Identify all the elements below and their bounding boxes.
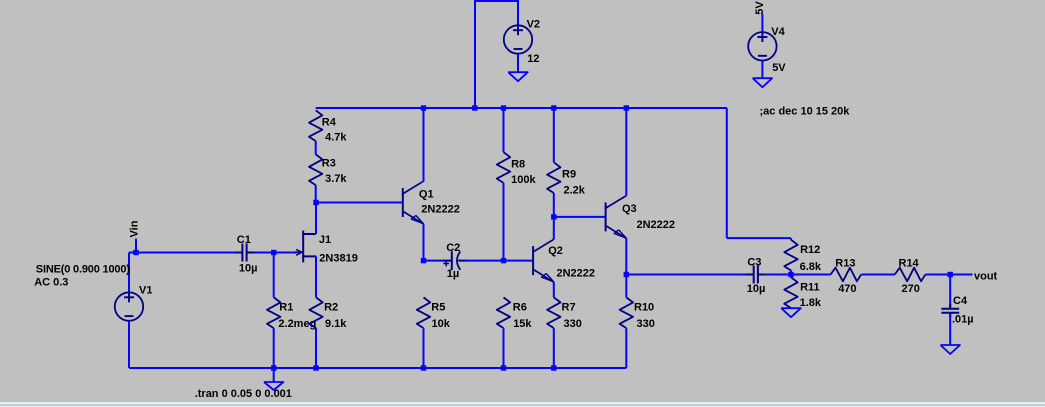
wire rail to R12 vertical [726, 108, 728, 238]
wire ground rail [129, 367, 626, 369]
capacitor C2 plus sign [443, 261, 449, 267]
svg-text:C2: C2 [446, 242, 460, 254]
svg-text:2N2222: 2N2222 [557, 268, 596, 280]
transistor Q2 emitter [534, 270, 554, 283]
svg-text:R13: R13 [835, 258, 855, 270]
svg-text:270: 270 [902, 283, 920, 295]
resistor R8 [497, 152, 510, 183]
wire J1 drain up [315, 203, 317, 235]
label R11 [800, 282, 820, 294]
ground V2 [508, 72, 528, 81]
svg-text:C4: C4 [953, 295, 968, 307]
wire R12 bottom [790, 271, 792, 275]
resistor R2 [309, 297, 322, 328]
wire R10 bottom [625, 328, 627, 368]
node junction rail-R6 [501, 365, 506, 370]
jfet J1 gate arrow [295, 249, 304, 255]
svg-text:Vin: Vin [129, 220, 141, 237]
value 10k [432, 318, 451, 330]
svg-text:1.8k: 1.8k [800, 297, 822, 309]
wire Q2 collector up [553, 217, 555, 240]
label C2 [446, 242, 460, 254]
label R2 [324, 302, 338, 314]
value R10 330 [637, 318, 655, 330]
label V2 [527, 18, 540, 30]
value 1.8k [800, 297, 822, 309]
wire C1 to node [255, 252, 297, 254]
svg-text:12: 12 [527, 53, 539, 65]
svg-text:R12: R12 [800, 244, 820, 256]
resistor R1 [267, 297, 280, 328]
value 2.2meg [278, 318, 316, 330]
svg-text:R7: R7 [562, 302, 576, 314]
jfet J1 source lead [302, 255, 316, 257]
svg-text:J1: J1 [319, 234, 331, 246]
value 270 [902, 283, 920, 295]
wire vout stub [950, 274, 972, 276]
label 5V rotated net [754, 1, 766, 15]
svg-text:10µ: 10µ [239, 263, 258, 275]
node junction rail-R9 [551, 105, 556, 110]
svg-text:SINE(0 0.900 1000): SINE(0 0.900 1000) [36, 263, 131, 275]
svg-text:Q3: Q3 [622, 203, 637, 215]
wire C4 bottom [949, 314, 951, 346]
label C4 [953, 295, 968, 307]
wire R7 bottom [553, 328, 555, 368]
label R10 [634, 302, 654, 314]
label Q1 [419, 188, 434, 200]
value Q2 2N2222 [557, 268, 596, 280]
wire R1 top [273, 253, 275, 298]
transistor Q1 emitter [403, 212, 423, 225]
wire V1 bottom [128, 321, 130, 368]
voltage source V4 [748, 32, 776, 61]
wire R13 to R14 [861, 274, 895, 276]
wire C4 top [949, 275, 951, 309]
value 10u [239, 263, 258, 275]
node junction rail-R5 [421, 365, 426, 370]
svg-text:5V: 5V [754, 1, 766, 15]
svg-text:10µ: 10µ [747, 283, 766, 295]
node junction C3-R12-R11-R13 [788, 272, 793, 277]
node junction Q1e-C2-R5 [421, 258, 426, 263]
label R13 [835, 258, 855, 270]
svg-text:C1: C1 [237, 234, 251, 246]
svg-text:330: 330 [564, 318, 582, 330]
transistor Q3 emitter [606, 226, 626, 239]
resistor R11 [784, 277, 797, 308]
wire V4 bottom [761, 61, 763, 79]
svg-text:V2: V2 [527, 18, 540, 30]
wire Q1 collector up [423, 108, 425, 182]
svg-text:;ac dec 10 15 20k: ;ac dec 10 15 20k [760, 105, 851, 117]
wire base Q3 [554, 216, 606, 218]
svg-text:2N2222: 2N2222 [637, 219, 676, 231]
resistor R6 [497, 297, 510, 328]
svg-text:Q2: Q2 [548, 245, 563, 257]
directive .tran [195, 388, 292, 400]
label R4 [322, 116, 337, 128]
svg-text:C3: C3 [747, 256, 761, 268]
label R14 [899, 258, 920, 270]
label J1 [319, 234, 331, 246]
svg-text:1µ: 1µ [447, 268, 459, 280]
transistor Q1 collector [403, 181, 423, 193]
wire C3 to node [766, 274, 791, 276]
svg-text:V4: V4 [771, 26, 785, 38]
wire V4 top [761, 14, 763, 32]
svg-text:.01µ: .01µ [952, 314, 974, 326]
label R8 [511, 158, 525, 170]
wire node to R13 [791, 274, 831, 276]
node junction rail-R7 [551, 365, 556, 370]
wire V2 bottom [517, 54, 519, 72]
transistor Q3 collector [606, 196, 626, 208]
svg-text:Q1: Q1 [419, 188, 434, 200]
svg-text:470: 470 [838, 283, 856, 295]
transistor Q1 base bar [402, 188, 404, 217]
svg-text:2N3819: 2N3819 [319, 252, 358, 264]
wire R14 to vout node [925, 274, 950, 276]
capacitor C3 [746, 266, 766, 284]
jfet J1 channel [302, 231, 304, 263]
svg-text:R9: R9 [562, 169, 576, 181]
ground C4 [940, 345, 960, 354]
value 470 [838, 283, 856, 295]
node junction Vin [133, 250, 138, 255]
resistor R3 [309, 154, 322, 185]
svg-text:R10: R10 [634, 302, 654, 314]
transistor Q2 base bar [532, 246, 534, 275]
value 4.7k [325, 131, 347, 143]
label Vin rotated [129, 220, 141, 237]
value 1u [447, 268, 459, 280]
wire R6 bottom [503, 328, 505, 368]
svg-text:R3: R3 [322, 157, 336, 169]
value 100k [511, 174, 536, 186]
svg-text:2.2k: 2.2k [564, 185, 586, 197]
resistor R5 [417, 297, 430, 328]
directive ;ac dec 10 15 20k [760, 105, 851, 117]
node junction rail-R8 [501, 105, 506, 110]
resistor R13 [831, 268, 862, 282]
svg-text:R4: R4 [322, 116, 337, 128]
value Q1 2N2222 [421, 203, 460, 215]
capacitor C4 [941, 304, 959, 318]
svg-text:4.7k: 4.7k [325, 131, 347, 143]
node junction rail-R1 [271, 365, 276, 370]
label R7 [562, 302, 576, 314]
wire rail to R12 horizontal [727, 237, 791, 239]
wire to C2 [424, 260, 445, 262]
svg-text:R2: R2 [324, 302, 338, 314]
ground V4 [753, 78, 773, 87]
node junction vout [948, 272, 953, 277]
node junction C1-R1 [271, 250, 276, 255]
node junction C2-R6-R8 [501, 258, 506, 263]
wire Q2 emitter down [553, 282, 555, 298]
wire R1 bottom [273, 328, 275, 368]
value C3 10u [747, 283, 766, 295]
wire Q1 emitter down [423, 224, 425, 261]
value 5V [772, 62, 786, 74]
wire R4-R3 [315, 141, 317, 154]
node junction rail-V2 [472, 105, 477, 110]
capacitor C1 [235, 244, 255, 262]
svg-text:R1: R1 [279, 302, 293, 314]
node junction rail-QC1 [421, 105, 426, 110]
value Q3 2N2222 [637, 219, 676, 231]
svg-text:9.1k: 9.1k [325, 318, 347, 330]
label R12 [800, 244, 820, 256]
label V1 [139, 284, 152, 296]
svg-text:R5: R5 [431, 302, 445, 314]
label R6 [513, 302, 527, 314]
node junction rail-QC3 [624, 105, 629, 110]
capacitor C2 polarized [444, 251, 467, 270]
voltage source V1 [115, 292, 143, 321]
wire R11 stub [790, 275, 792, 278]
value 15k [513, 318, 532, 330]
node junction rail-R2 [313, 365, 318, 370]
wire R10 top [625, 275, 627, 298]
node junction Q3e-R10-C3 [624, 272, 629, 277]
node junction R3-J1-Q1 [313, 200, 318, 205]
node junction R9-Q2-Q3 [551, 214, 556, 219]
wire Vin stub [135, 239, 137, 253]
label vout net [974, 270, 998, 282]
resistor R9 [547, 162, 560, 193]
directive AC 0.3 [34, 276, 68, 288]
wire R9 top [553, 108, 555, 162]
svg-text:.tran 0 0.05 0 0.001: .tran 0 0.05 0 0.001 [195, 388, 292, 400]
svg-text:AC 0.3: AC 0.3 [34, 276, 68, 288]
svg-text:330: 330 [637, 318, 655, 330]
svg-text:V1: V1 [139, 284, 152, 296]
ground R11 [781, 308, 801, 317]
svg-text:100k: 100k [511, 174, 536, 186]
wire input horizontal [129, 252, 235, 254]
svg-text:R6: R6 [513, 302, 527, 314]
value 3.7k [325, 173, 347, 185]
svg-text:15k: 15k [513, 318, 532, 330]
wire R2 bottom [315, 328, 317, 368]
wire R9 bottom [553, 193, 555, 217]
label R5 [431, 302, 445, 314]
label C1 [237, 234, 251, 246]
value 6.8k [800, 261, 822, 273]
svg-text:R8: R8 [511, 158, 525, 170]
transistor Q3 base bar [605, 202, 607, 231]
svg-text:R14: R14 [899, 258, 920, 270]
svg-text:3.7k: 3.7k [325, 173, 347, 185]
directive SINE [36, 263, 131, 275]
resistor R10 [620, 297, 633, 328]
resistor R12 [784, 240, 797, 271]
wire to Q2 base [504, 260, 534, 262]
svg-text:vout: vout [974, 270, 998, 282]
wire gnd stub [273, 368, 275, 382]
label V4 [771, 26, 785, 38]
resistor R14 [895, 268, 926, 282]
svg-text:5V: 5V [772, 62, 786, 74]
svg-text:R11: R11 [800, 282, 820, 294]
wire V1 top [128, 253, 130, 293]
wire V+ top rail [316, 107, 727, 109]
voltage source V2 [504, 25, 532, 53]
transistor Q2 collector [534, 239, 554, 251]
wire C2 to R6 [467, 260, 504, 262]
svg-text:6.8k: 6.8k [800, 261, 822, 273]
wire R8 bottom [503, 183, 505, 261]
wire V2 feed vertical [474, 1, 519, 108]
wire Q3 emitter down [625, 238, 627, 274]
wire J1 source down [315, 256, 317, 297]
value R7 330 [564, 318, 582, 330]
wire R8 top [503, 108, 505, 152]
jfet J1 drain lead [302, 233, 316, 235]
label C3 [747, 256, 761, 268]
resistor R7 [547, 297, 560, 328]
label R3 [322, 157, 336, 169]
ground main [264, 382, 284, 390]
label R9 [562, 169, 576, 181]
svg-text:10k: 10k [432, 318, 451, 330]
wire base Q1 [316, 202, 403, 204]
wire R12 stub [790, 238, 792, 240]
value 2N3819 [319, 252, 358, 264]
label Q2 [548, 245, 563, 257]
label Q3 [622, 203, 637, 215]
label R1 [279, 302, 293, 314]
wire R3 bottom [315, 185, 317, 202]
wire R5 bottom [423, 328, 425, 368]
value 2.2k [564, 185, 586, 197]
value 9.1k [325, 318, 347, 330]
wire Q3 collector up [625, 108, 627, 196]
value .01u [952, 314, 974, 326]
svg-text:2N2222: 2N2222 [421, 203, 460, 215]
wire Q3e to C3 [626, 274, 746, 276]
resistor R4 [309, 110, 322, 141]
value 12 [527, 53, 539, 65]
